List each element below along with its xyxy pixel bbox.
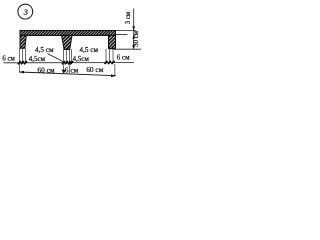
- svg-text:4,5 см: 4,5 см: [35, 46, 54, 54]
- svg-text:4,5см: 4,5см: [73, 55, 90, 63]
- wire: slab underside between ribs: [26, 35, 61, 37]
- left rib (hatched): [20, 35, 26, 48]
- extension lines middle cluster: [64, 49, 72, 63]
- right rib (hatched): [109, 35, 116, 48]
- svg-text:60 см: 60 см: [86, 65, 104, 74]
- svg-text:3: 3: [23, 8, 28, 17]
- svg-text:30 см: 30 см: [133, 30, 140, 47]
- risers to dimension line 2: [19, 64, 115, 76]
- arrows on vertical dimension line: [132, 26, 135, 49]
- svg-text:6 см: 6 см: [65, 65, 79, 74]
- dimension line 1 (small widths): [4, 62, 135, 64]
- rib bottom edge emphasis: [20, 48, 116, 49]
- svg-text:4,5 см: 4,5 см: [80, 46, 99, 54]
- svg-text:3 см: 3 см: [125, 11, 132, 24]
- ticks on dimension line 1: [18, 61, 115, 64]
- dimension line 2 (60/6/60): [19, 72, 116, 76]
- right side: rib-bottom extension line: [113, 48, 141, 50]
- extension lines left cluster: [19, 48, 25, 62]
- svg-text:6 см: 6 см: [117, 54, 130, 62]
- svg-text:60 см: 60 см: [37, 65, 55, 74]
- vertical dimension line right: [133, 9, 135, 50]
- arrows on dimension line 2: [19, 70, 116, 78]
- svg-text:6 см: 6 см: [2, 55, 15, 63]
- svg-text:4,5см: 4,5см: [29, 55, 46, 63]
- leader from 4,5 label to middle rib: [48, 54, 64, 62]
- extension lines right cluster: [106, 49, 113, 63]
- middle rib (hatched trapezoid): [62, 35, 72, 49]
- top slab (hatched): [20, 31, 116, 36]
- figure number badge circle: [18, 4, 33, 19]
- right side: slab-bottom extension line: [116, 34, 128, 36]
- right side: slab-top extension line: [116, 29, 136, 31]
